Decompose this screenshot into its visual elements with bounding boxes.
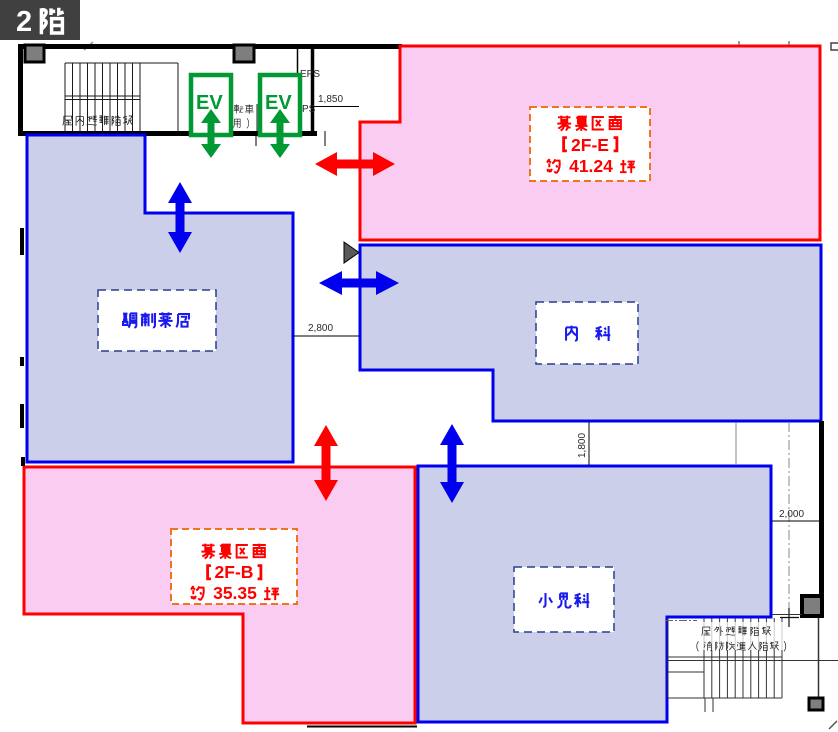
column top-left xyxy=(25,45,44,62)
wire: EPS shaft left line xyxy=(297,46,299,133)
column bottom-right small xyxy=(809,698,823,710)
svg-text:EV: EV xyxy=(265,92,292,114)
label box 2F-B xyxy=(171,529,297,604)
svg-text:2,000: 2,000 xyxy=(779,509,804,520)
wire: thin grid line x736 xyxy=(735,422,737,465)
node: grey triangle entrance marker xyxy=(344,242,359,263)
label box 内科 xyxy=(536,302,638,364)
column top-mid xyxy=(234,45,254,62)
svg-text:35.35: 35.35 xyxy=(213,583,257,603)
title 2階 black box xyxy=(0,0,80,40)
wire: small diagonal mark near title xyxy=(84,42,93,50)
label bicycle text 転車/用） xyxy=(233,104,254,128)
column bottom-right big xyxy=(802,596,822,616)
zone shonika lavender polygon 小児科 xyxy=(418,466,771,722)
wire: cross marker at x789 xyxy=(788,608,790,627)
wire: dash-dot near step corner xyxy=(665,620,697,622)
zone naika lavender polygon 内科 xyxy=(360,245,821,421)
stairs upper-left treads xyxy=(65,63,178,131)
svg-text:2,800: 2,800 xyxy=(308,323,333,334)
svg-text:1,800: 1,800 xyxy=(577,433,588,458)
svg-text:EPS: EPS xyxy=(300,69,320,80)
arrow blue vertical lower-mid xyxy=(440,424,464,503)
wire: top-right corner bracket xyxy=(831,43,838,50)
zone 2F-B pink polygon xyxy=(24,467,415,723)
svg-text:1,850: 1,850 xyxy=(318,94,343,105)
stairs bottom-right external xyxy=(668,618,838,712)
label box 2F-E xyxy=(530,107,650,181)
wire: bottom-right corner tick xyxy=(829,721,837,729)
arrow green EV2 vertical xyxy=(270,109,290,158)
elevator EV2 box xyxy=(260,75,300,135)
wire: top ticks xyxy=(738,41,740,45)
label box 小児科 xyxy=(514,567,614,632)
label box 調剤薬局 xyxy=(98,290,216,351)
wire: left wall tick marks xyxy=(20,228,24,255)
zone 2F-E pink polygon xyxy=(360,46,820,240)
elevator EV1 box xyxy=(191,75,231,135)
svg-text:PS: PS xyxy=(302,104,316,115)
arrow blue horizontal middle xyxy=(319,271,399,295)
arrow green EV1 vertical xyxy=(201,109,221,158)
wire: dash-dot grid line x789 xyxy=(788,422,790,612)
wire: building top wall xyxy=(18,44,402,49)
wire: building left wall upper xyxy=(18,44,23,136)
svg-text:41.24: 41.24 xyxy=(569,156,613,176)
arrow blue vertical upper-left xyxy=(168,182,192,253)
svg-text:2F-E: 2F-E xyxy=(571,135,609,155)
label outdoor evacuation stairs 屋外避難階段 white bg xyxy=(694,622,784,650)
svg-text:EV: EV xyxy=(196,92,223,114)
svg-text:2: 2 xyxy=(16,6,32,38)
zone chozai lavender polygon 調剤薬局 xyxy=(27,135,293,462)
svg-text:2F-B: 2F-B xyxy=(215,562,254,582)
wire: EPS shaft right wall xyxy=(311,46,315,136)
wire: service corridor bottom wall xyxy=(18,131,317,136)
arrow red vertical lower-left xyxy=(314,425,338,501)
wire: building right wall lower xyxy=(819,421,824,597)
arrow red horizontal top xyxy=(315,152,395,176)
wire: right thin wall below column xyxy=(818,618,820,697)
wire: bottom wall line under 2F-B xyxy=(307,726,417,728)
label indoor evacuation stairs 屋内避難階段 xyxy=(63,115,133,126)
